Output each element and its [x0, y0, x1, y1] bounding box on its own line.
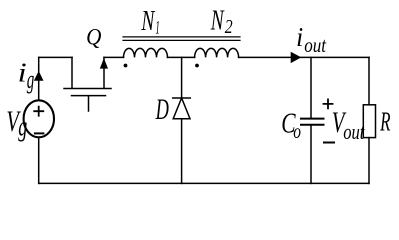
polarity dot of N2	[195, 64, 199, 68]
label N2 subscript '2'	[225, 15, 233, 37]
label Vout subscript 'out'	[343, 121, 365, 145]
label i_g 'i'	[18, 57, 27, 88]
inductor winding N1	[124, 48, 168, 57]
label N2 'N'	[210, 5, 225, 37]
wire: right branch lower	[368, 138, 370, 184]
capacitor Co plates	[301, 119, 324, 125]
svg-text:g: g	[27, 64, 35, 94]
label i_out subscript 'out'	[304, 34, 326, 57]
label Vout 'V'	[332, 107, 347, 139]
label D	[155, 94, 169, 127]
wire: diode branch upper	[181, 57, 183, 98]
plus sign of Vg	[34, 107, 43, 116]
wire: Q drain to N1	[104, 56, 124, 58]
svg-text:o: o	[293, 120, 301, 144]
wire: N1 to N2 (tap node)	[168, 56, 195, 58]
wire: diode branch lower	[181, 119, 183, 184]
wire: right branch upper	[368, 57, 370, 104]
plus sign of Co	[324, 99, 333, 108]
label i_g subscript 'g'	[27, 64, 35, 94]
svg-text:N: N	[141, 5, 156, 37]
label Q	[86, 23, 101, 49]
resistor R body	[363, 105, 375, 138]
wire: N2 to output node	[239, 56, 369, 58]
svg-text:R: R	[379, 107, 390, 137]
minus sign of Vg	[35, 132, 44, 134]
wire: left vertical above source Vg	[38, 57, 40, 100]
wire: capacitor branch upper	[310, 57, 312, 118]
svg-text:out: out	[343, 121, 365, 145]
svg-text:g: g	[18, 111, 27, 142]
label N1 'N'	[141, 5, 156, 37]
label Co 'C'	[281, 109, 296, 139]
svg-text:D: D	[155, 94, 169, 127]
svg-text:2: 2	[225, 15, 233, 37]
wire: capacitor branch lower	[310, 125, 312, 184]
voltage source Vg circle	[24, 100, 54, 137]
label R	[379, 107, 390, 137]
svg-text:i: i	[296, 21, 303, 52]
transformer core	[123, 37, 240, 41]
label Vg 'V'	[6, 107, 21, 138]
label Vg subscript 'g'	[18, 111, 27, 142]
current arrow i_out	[291, 52, 302, 63]
polarity dot of N1	[124, 64, 128, 68]
svg-text:i: i	[18, 57, 27, 88]
transistor Q (MOSFET)	[64, 57, 111, 111]
label i_out 'i'	[296, 21, 303, 52]
minus sign of Co	[324, 142, 334, 144]
wire: left vertical below source Vg	[38, 138, 40, 184]
svg-text:out: out	[304, 34, 326, 57]
svg-text:Q: Q	[86, 23, 101, 49]
svg-text:1: 1	[155, 18, 159, 38]
label N1 subscript '1'	[155, 18, 159, 38]
label Co subscript 'o'	[293, 120, 301, 144]
wire: bottom rail	[39, 182, 369, 184]
svg-text:N: N	[210, 5, 225, 37]
inductor winding N2	[195, 48, 239, 57]
wire: top-left segment from source to Q	[39, 56, 72, 58]
current arrow of Q	[100, 58, 108, 69]
diode D	[173, 98, 191, 119]
current arrow i_g	[34, 71, 44, 81]
